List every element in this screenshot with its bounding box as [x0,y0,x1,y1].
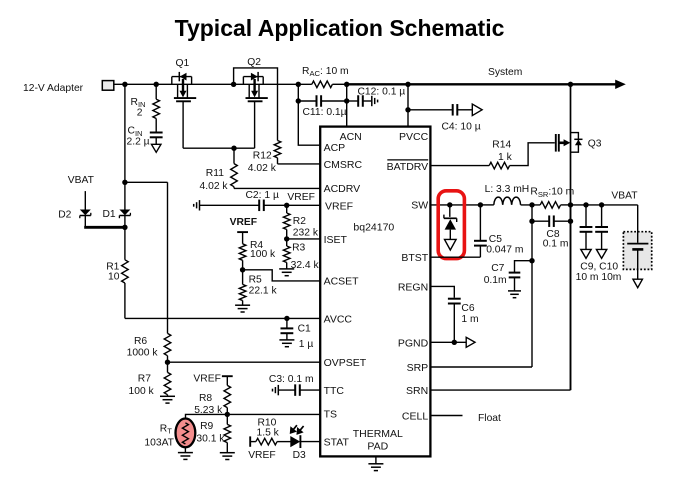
label Q2 [247,57,261,68]
label R4 value [250,249,276,260]
label RT value [144,438,174,449]
svg-text:R8: R8 [199,393,212,404]
net VREF stub R8 [222,375,233,377]
svg-text:R6: R6 [134,336,147,347]
wire SW to L [450,204,494,206]
resistor R7 [164,372,171,394]
wire R5 bottom [242,301,244,305]
ground C1 [279,340,294,347]
wire C10 top [601,205,603,227]
adapter connector [102,81,114,91]
label C1 value [299,339,314,350]
svg-text:D3: D3 [293,450,306,461]
svg-text:ACDRV: ACDRV [324,183,361,195]
title [175,15,505,41]
label RIN value [137,107,143,118]
resistor R5 [239,284,246,300]
label C1 [298,324,311,335]
ground C10 [596,249,606,258]
node C9 junction [583,202,588,207]
node adapter junction [122,82,127,87]
label R8 [199,393,212,404]
svg-text:4.02 k: 4.02 k [248,163,277,174]
ground PGND (power) [466,337,475,347]
svg-text:1 µ: 1 µ [299,339,314,350]
svg-text:D1: D1 [103,209,116,220]
label R10 [258,418,277,429]
LED D3 [290,435,300,448]
label CIN value [127,137,150,148]
svg-text:VBAT: VBAT [611,191,638,202]
wire R8-R9 [226,408,228,425]
ground schottky [445,239,457,250]
svg-text:VREF: VREF [287,192,314,203]
capacitor C9 [580,227,593,232]
wire R3 bottom [286,263,288,269]
svg-text:ISET: ISET [324,234,348,246]
node C1 junction [284,316,289,321]
label C4 [442,122,481,133]
wire ISET [287,238,321,240]
wire C11 right [321,100,347,102]
label Q3 [588,138,602,149]
resistor R2 [283,213,290,230]
label R8 value [194,405,223,416]
resistor R11 [231,164,238,187]
ground C9 [581,249,591,258]
wire R6-R7 [167,356,169,373]
pin OVPSET [324,357,367,369]
wire ACN branch [346,84,348,126]
svg-text:1.5 k: 1.5 k [257,428,280,439]
node PVCC junction [405,82,410,87]
svg-text:C3: 0.1 m: C3: 0.1 m [269,374,314,385]
12-V adapter input label [23,83,84,94]
node SW diode junction [447,202,452,207]
wire VBAT tap right [125,181,168,183]
label R14 value [498,152,513,163]
pin ISET [324,234,348,246]
wire C4 left [408,109,453,111]
node ACP junction [296,82,301,87]
svg-text:D2: D2 [58,210,71,221]
node C7 junction [529,258,534,263]
transistor Q1 [172,72,196,101]
diode D2 [80,210,91,219]
svg-text:R14: R14 [492,140,511,151]
svg-text:30.1 k: 30.1 k [196,433,225,444]
svg-text:System: System [488,67,522,78]
resistor RSR [540,202,560,209]
label VBAT left [68,175,95,186]
wire C12 left [347,100,358,102]
wire C9 bottom [585,232,587,250]
wire C2 left [200,204,260,206]
pin CMSRC [324,159,363,171]
wire STAT [300,441,320,443]
wire VBAT tap down [167,182,169,333]
wire R4 top [242,232,244,244]
svg-text:C12: 0.1 µ: C12: 0.1 µ [358,87,406,98]
node TS junction [225,412,230,417]
svg-text:1000 k: 1000 k [127,348,159,359]
node SRN junction [568,202,573,207]
label bq24170 [353,222,394,234]
ground C7 [508,291,521,298]
label C5 value [486,244,523,255]
svg-text:REGN: REGN [398,281,428,293]
label C9 C10 [580,261,618,272]
wire SRP down [531,205,533,367]
wire R2 top [286,205,288,213]
label C6 [461,303,474,314]
wire diode OR (thick) [84,226,125,229]
pin ACP [324,142,346,154]
wire Q3 vertical [570,84,572,205]
wire C10 bottom [601,232,603,250]
resistor R9 [224,424,231,442]
thermistor RT body [176,419,196,448]
svg-text:100 k: 100 k [250,249,276,260]
op-amp U1 bq24170 body [320,127,430,457]
node C8 left [529,219,534,224]
System arrow [615,80,626,89]
wire ACP branch [298,84,320,145]
wire C12 right [363,100,371,102]
wire R1 top [124,227,126,259]
wire R9 bottom [226,443,228,453]
ground C2 (signal) [194,200,200,210]
pin BATDRV [387,160,429,173]
wire VBAT stub [84,191,86,210]
resistor RIN [153,99,160,118]
svg-text:C4: 10 µ: C4: 10 µ [442,122,481,133]
label C2 [246,190,279,201]
wire L to RSR [521,204,541,206]
wire adapter down [124,84,126,209]
wire C1 top [286,318,288,328]
svg-text:AVCC: AVCC [324,313,353,325]
node RIN junction [154,82,159,87]
svg-text:ACSET: ACSET [324,276,360,288]
wire OVPSET [168,361,321,363]
svg-text:bq24170: bq24170 [353,222,394,234]
wire C8 right [554,220,571,222]
pin TTC [324,385,345,397]
wire Q2 bypass [234,68,278,141]
battery cell symbol [627,244,648,250]
label D3 [293,450,306,461]
ground CIN [151,144,161,152]
pin AVCC [324,313,353,325]
svg-text:0.047 m: 0.047 m [486,244,523,255]
resistor R10 [256,438,277,445]
capacitor C11 [317,95,322,107]
svg-text:1 k: 1 k [498,152,513,163]
svg-text:RT: RT [160,423,172,435]
wire SRP [430,366,532,368]
wire CELL [430,415,462,417]
svg-text:C7: C7 [491,263,504,274]
wire C7 elbow [515,261,533,273]
wire C1 bottom [286,333,288,340]
wire C9 top [585,205,587,227]
wire SRN [430,389,570,391]
resistor RAC [312,81,333,88]
label RIN [131,97,146,109]
wire C8 left [532,220,549,222]
svg-text:12-V Adapter: 12-V Adapter [23,83,84,94]
svg-text:R5: R5 [249,275,262,286]
wire RT bottom [184,447,186,452]
svg-text:VREF: VREF [248,450,275,461]
node C5 junction [478,202,483,207]
wire R8 top [226,376,228,385]
svg-text:VBAT: VBAT [68,175,95,186]
node OVPSET junction [165,360,170,365]
svg-text:C9, C10: C9, C10 [580,261,618,272]
label R12 [253,151,272,162]
node C4 junction [405,107,410,112]
label R12 value [248,163,277,174]
svg-text:ACP: ACP [324,142,346,154]
node Q1-Q2 junction [231,82,236,87]
wire battery top [637,205,639,243]
wire AVCC [125,317,320,319]
svg-text:4.02 k: 4.02 k [200,181,229,192]
label VREF (C2) [287,192,314,203]
svg-text:C5: C5 [489,234,502,245]
label R4 [250,240,263,251]
pin BTST [401,252,428,264]
node gate junction [231,146,236,151]
svg-text:32.4 k: 32.4 k [291,260,320,271]
pin ACDRV [324,183,361,195]
node VREF junction [284,203,289,208]
wire RIN stub [155,84,157,132]
svg-text:L: 3.3 mH: L: 3.3 mH [485,184,530,195]
svg-text:R9: R9 [200,421,213,432]
diode D4 schottky [444,205,457,240]
capacitor C2 [259,200,264,212]
svg-text:R2: R2 [293,216,306,227]
pin VREF [325,200,353,212]
pin STAT [324,437,350,449]
label VREF (R10) [248,450,275,461]
label R1 value [108,272,120,283]
wire CIN to ground [155,137,157,144]
wire R1 bottom [124,283,126,318]
svg-text:CELL: CELL [402,410,428,422]
wire CMSRC [278,158,321,164]
label C7 [491,263,504,274]
label R6 [134,336,147,347]
node C10 junction [599,202,604,207]
svg-text:R7: R7 [138,374,151,385]
label C12 [358,87,406,98]
resistor R12 [274,141,281,158]
resistor R8 [224,385,231,407]
label R5 value [249,285,278,296]
node SRP junction [529,202,534,207]
svg-text:SRP: SRP [407,362,429,374]
ground R5 [235,305,250,312]
label R9 [200,421,213,432]
label R7 [138,374,151,385]
svg-text:2: 2 [137,107,143,118]
wire C11 left [298,100,316,102]
pin SRP [407,362,429,374]
wire REGN [430,286,454,297]
wire RT elbow [186,414,228,419]
wire C4 right [457,109,472,111]
wire Q1 gate [182,101,184,148]
wire R4-R5 [242,260,244,284]
svg-text:Q2: Q2 [247,57,261,68]
svg-text:2.2 µ: 2.2 µ [127,137,150,148]
pin SRN [406,385,428,397]
node VBAT tap [122,180,127,185]
svg-text:BATDRV: BATDRV [387,161,429,173]
wire R2-R3 [286,230,288,247]
svg-text:Typical Application Schematic: Typical Application Schematic [175,15,505,41]
node ACN junction [344,82,349,87]
net VREF stub R10 [249,436,251,446]
node C11 left [296,98,301,103]
svg-text:TTC: TTC [324,385,345,397]
wire R10 left [250,441,256,443]
svg-text:10: 10 [108,272,120,283]
svg-text:C2: 1 µ: C2: 1 µ [246,190,279,201]
svg-text:0.1m: 0.1m [484,275,507,286]
capacitor C10 [595,227,608,232]
transistor Q3 [556,133,583,153]
svg-text:TS: TS [324,409,337,421]
label RT [160,423,172,435]
wire TTC [300,389,320,391]
wire ACSET elbow [243,270,321,281]
pin PGND [398,337,429,349]
svg-text:CMSRC: CMSRC [324,159,363,171]
wire SW [430,204,449,206]
label R10 value [257,428,280,439]
pin TS [324,409,337,421]
label Float [478,413,501,424]
pin SW [411,200,428,212]
wire VBAT line [571,204,638,206]
svg-text:BTST: BTST [401,252,428,264]
pin CELL [402,410,428,422]
capacitor C7 [509,273,521,278]
wire C7 bottom [514,277,516,290]
label C3 [269,374,314,385]
wire ACDRV [234,187,320,189]
wire R14 to Q3 gate [510,143,555,166]
svg-text:OVPSET: OVPSET [324,357,367,369]
inductor L1 [494,197,521,205]
wire top rail thick (System) [347,83,616,85]
svg-text:C11: 0.1µ: C11: 0.1µ [303,107,347,118]
svg-text:PVCC: PVCC [399,131,429,143]
resistor R1 [122,260,129,283]
wire TS [227,413,320,415]
label C8 value [543,238,569,249]
wire VREF pin [264,204,320,206]
label VREF (R8) [193,374,220,385]
capacitor C12 [358,95,363,107]
label C9 C10 values [576,272,622,283]
svg-text:PAD: PAD [367,441,388,453]
transistor Q2 [243,72,267,101]
ground C3 (signal) [273,385,279,395]
svg-text:232 k: 232 k [293,227,319,238]
svg-text:SW: SW [411,200,428,212]
wire C3 left [278,389,295,391]
svg-text:PGND: PGND [398,337,429,349]
ground C4 (power) [472,104,482,116]
wire BTST [430,246,480,258]
capacitor C5 [474,241,487,246]
label C5 [489,234,502,245]
wire PGND [430,341,466,343]
wire C6 bottom [453,304,455,343]
wire BATDRV [430,165,489,167]
label R9 value [196,433,225,444]
pin ACSET [324,276,360,288]
highlight red box [438,191,464,259]
capacitor C1 [281,328,294,333]
node ISET junction [284,236,289,241]
wire R11 stub [233,148,235,188]
battery pack box [623,232,651,270]
label Q1 [176,58,190,69]
label L1 [485,184,530,195]
svg-text:C1: C1 [298,324,311,335]
net VREF stub R4 [237,231,248,233]
svg-text:R3: R3 [292,242,305,253]
label C8 [546,229,559,240]
node diode junction [122,225,127,230]
svg-text:Q3: Q3 [588,138,602,149]
wire gate row [183,147,255,149]
svg-text:STAT: STAT [324,437,350,449]
label VREF (R4) [230,217,257,228]
label R11 [206,168,224,179]
wire R10-D3 [277,441,291,443]
label D2 [58,210,71,221]
svg-text:C6: C6 [461,303,474,314]
label RSR [530,187,574,199]
capacitor C8 [549,215,554,227]
label VBAT right [611,191,638,202]
svg-text:22.1 k: 22.1 k [249,285,278,296]
svg-text:R12: R12 [253,151,272,162]
pin ACN [340,131,362,143]
label R3 [292,242,305,253]
label C6 value [461,314,478,325]
ground R9 [220,453,235,460]
node PGND junction [452,340,457,345]
svg-text:100 k: 100 k [129,386,155,397]
svg-text:Float: Float [478,413,501,424]
label System [488,67,522,78]
LED D3 arrows [291,425,304,433]
ground thermal pad [368,456,383,470]
resistor R14 [489,162,509,169]
svg-text:VREF: VREF [230,217,257,228]
svg-text:R11: R11 [206,168,224,179]
resistor R3 [283,246,290,263]
